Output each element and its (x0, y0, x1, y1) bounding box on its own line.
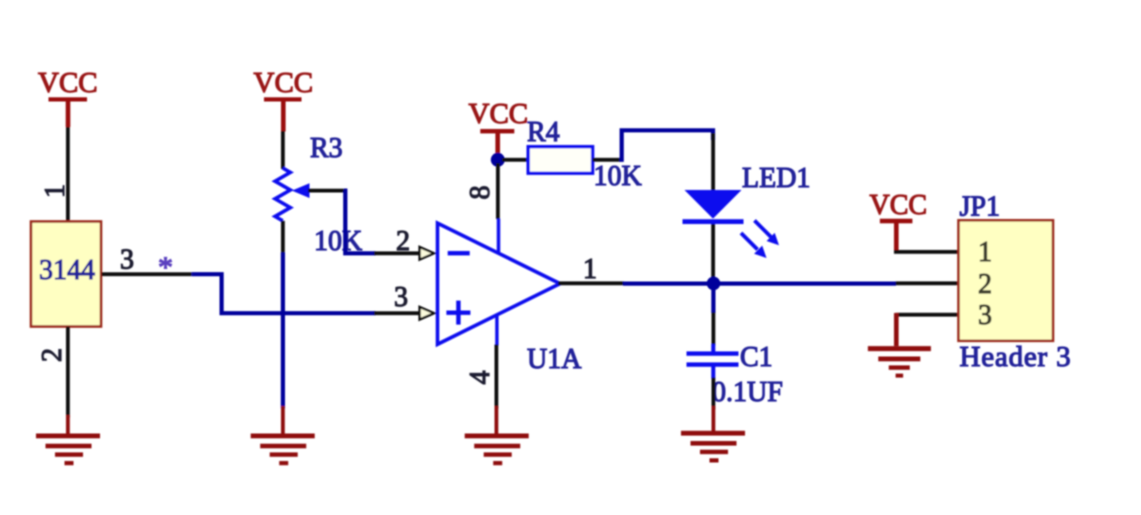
svg-text:1: 1 (978, 237, 992, 268)
pin lead U1A pin 4 (495, 314, 498, 345)
svg-text:C1: C1 (740, 342, 773, 373)
svg-text:2: 2 (37, 348, 68, 362)
power symbol VCC (3144 supply) (38, 67, 98, 127)
pin lead U1A pin 1 (558, 281, 624, 285)
pin lead 3144 pin 3 (102, 272, 192, 276)
svg-text:3144: 3144 (39, 255, 95, 286)
pin arrow U1A pin 3 (420, 307, 434, 320)
svg-text:2: 2 (396, 226, 410, 257)
LED LED1 body (685, 190, 742, 219)
pin lead R4 right (593, 158, 621, 162)
svg-text:R4: R4 (527, 117, 560, 148)
svg-text:VCC: VCC (469, 98, 529, 130)
svg-text:Header 3: Header 3 (960, 341, 1072, 373)
potentiometer R3 zigzag (275, 168, 290, 221)
wire junction to C1 (711, 288, 715, 313)
power symbol VCC (U1A pin 8) (469, 98, 529, 154)
power symbol VCC (R3 supply) (254, 67, 314, 132)
pin lead R3 bottom (281, 221, 285, 254)
ground (R3) (251, 434, 315, 466)
pin lead LED1 cathode (711, 224, 715, 278)
LED LED1 light arrows (741, 221, 779, 259)
wire U1A output to junction (623, 282, 715, 286)
power symbol VCC (JP1 pin 1) (870, 190, 928, 253)
svg-text:U1A: U1A (527, 344, 582, 375)
svg-text:1: 1 (40, 184, 71, 198)
svg-text:3: 3 (978, 300, 992, 331)
ground (3144) (36, 434, 100, 466)
pin lead JP1 pin 3 (896, 313, 959, 317)
junction dot (LED / C1 / output) (707, 277, 721, 291)
pin lead U1A pin 2 (374, 251, 424, 255)
header JP1 body (959, 220, 1054, 340)
pin lead U1A pin 3 (374, 311, 424, 315)
svg-text:VCC: VCC (870, 190, 928, 221)
svg-text:4: 4 (465, 371, 496, 385)
wire VCC to JP1 pin 1 (894, 250, 959, 254)
wire JP1 pin 3 to ground (894, 313, 899, 346)
pin lead U1A pin 8 (496, 163, 500, 219)
capacitor C1 plates (687, 351, 739, 355)
svg-text:0.1UF: 0.1UF (712, 377, 783, 408)
wire R3 wiper to U1A pin 2 (344, 191, 376, 254)
svg-text:VCC: VCC (38, 67, 98, 99)
potentiometer R3 wiper arrow (292, 183, 310, 198)
pin lead C1 top (712, 312, 716, 345)
wire output net to JP1 pin 2 (719, 282, 896, 286)
wire VCC to 3144 pin 1 (66, 127, 70, 222)
svg-text:LED1: LED1 (742, 163, 810, 194)
svg-text:1: 1 (583, 254, 597, 285)
wire 3144 pin 2 to ground (66, 327, 70, 418)
wire junction to R4 (502, 158, 529, 162)
op-amp minus input sign (448, 251, 470, 255)
wire 3144 pin3 to U1A pin3 net (192, 274, 376, 313)
svg-text:3: 3 (394, 282, 408, 313)
wire VCC to R3 (281, 131, 285, 169)
pin lead JP1 pin 2 (896, 281, 959, 285)
pin lead LED1 anode (711, 133, 715, 191)
ground (JP1) (868, 346, 931, 378)
wire R4 to LED1 (620, 130, 714, 160)
op-amp U1A triangle (438, 223, 561, 344)
svg-text:*: * (158, 251, 173, 284)
wire R3 bottom to ground (281, 253, 285, 409)
svg-text:10K: 10K (594, 161, 642, 192)
svg-text:2: 2 (978, 269, 992, 300)
op-amp plus input sign (446, 301, 470, 325)
resistor R4 body (528, 147, 592, 174)
ground (C1) (681, 431, 745, 463)
svg-text:R3: R3 (310, 133, 343, 164)
hall sensor 3144 body (31, 222, 101, 327)
svg-text:VCC: VCC (254, 67, 314, 99)
svg-text:8: 8 (465, 186, 496, 200)
svg-text:3: 3 (120, 245, 134, 276)
junction dot (VCC / R4 / pin 8) (491, 153, 505, 167)
svg-text:JP1: JP1 (960, 192, 1000, 223)
pin arrow U1A pin 2 (420, 247, 434, 260)
ground (U1A) (465, 434, 529, 466)
pin lead R3 wiper (308, 189, 346, 193)
pin lead C1 bottom (711, 366, 715, 379)
